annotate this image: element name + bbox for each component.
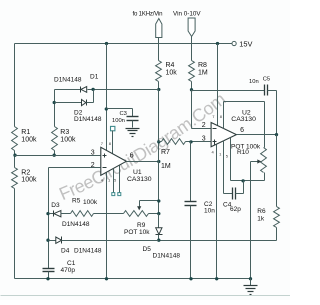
wire central node vertical (158, 90, 160, 214)
wire left edge upper (14, 44, 16, 127)
svg-text:6: 6 (130, 153, 134, 160)
node D2 riser joins D1 row (91, 88, 94, 91)
resistor R3 (52, 127, 58, 151)
wire R9 right (149, 213, 159, 215)
svg-text:10k: 10k (166, 69, 178, 76)
watermark (decorative) (63, 96, 235, 201)
svg-text:R1: R1 (21, 129, 30, 136)
connector fo 1KHz/Vin (156, 19, 162, 38)
node ground rail end (249, 277, 252, 280)
svg-text:D4: D4 (61, 247, 70, 254)
wire R3 bottom (54, 151, 56, 156)
diode D1 (81, 87, 87, 93)
wire R10 bottom (264, 173, 266, 181)
node C4 joins pot bottom (241, 179, 244, 182)
node U2 output junction (275, 133, 278, 136)
wire R6 bottom (276, 228, 278, 241)
svg-text:C1: C1 (67, 260, 76, 267)
wire C5 run (192, 90, 265, 92)
svg-text:D5: D5 (143, 246, 152, 253)
wire wiper to ground (250, 162, 252, 279)
wire U2 pin7 supply (217, 44, 219, 126)
wire D4 left (49, 240, 56, 242)
svg-text:3: 3 (202, 136, 206, 143)
node R3 joins pin3 row (53, 154, 56, 157)
wire U2 out to R6 (276, 135, 278, 207)
wire C1 bottom (48, 272, 50, 279)
resistor R5 (71, 211, 94, 217)
wire R9 wiper row (140, 200, 159, 202)
node C1 ground rail (46, 277, 49, 280)
wire pin3 row R1 R3 to U1 (15, 155, 101, 157)
diode D5 (156, 228, 162, 235)
svg-text:fo 1KHz/Vin: fo 1KHz/Vin (133, 11, 163, 18)
terminal U1 pin8 square (111, 126, 115, 130)
svg-text:CA3130: CA3130 (231, 116, 256, 123)
svg-text:D1N4148: D1N4148 (74, 116, 102, 123)
resistor R4 (156, 61, 162, 82)
svg-text:2: 2 (202, 122, 206, 129)
wire U1 offset pin a (113, 169, 115, 193)
capacitor C3 (127, 116, 139, 118)
wire U1 pin8 (112, 131, 114, 155)
diode D4 (56, 237, 62, 243)
node R8 bottom junction (190, 88, 193, 91)
svg-text:100k: 100k (83, 199, 98, 206)
svg-text:10n: 10n (204, 208, 215, 215)
svg-text:C5: C5 (263, 76, 270, 82)
wire D2 riser (93, 90, 95, 103)
resistor R8 (189, 61, 195, 82)
wire C2 top (190, 142, 192, 202)
node wiper joins central (157, 199, 160, 202)
node R9 D5 junction (157, 212, 160, 215)
svg-text:D1: D1 (90, 73, 99, 80)
wire U2 pin4 down (216, 145, 218, 279)
wire U1 offset pin b (119, 166, 121, 193)
node D2 row junction (53, 101, 56, 104)
svg-text:R4: R4 (166, 62, 175, 69)
wiper R9 (139, 201, 141, 207)
wire R8 bottom (191, 82, 193, 90)
wire U2 pin8 box (223, 102, 225, 129)
node U1 pin4 ground rail (105, 277, 108, 280)
wire C3 branch (107, 108, 133, 110)
wire D3 to R5 (61, 213, 71, 215)
svg-text:D3: D3 (51, 202, 60, 209)
wire U2 pin5 down (230, 138, 232, 181)
wire D4 row right (62, 240, 159, 242)
svg-text:POT 10k: POT 10k (124, 229, 150, 236)
svg-text:3: 3 (91, 150, 95, 157)
wire Vin connector to R8 (191, 37, 193, 61)
svg-text:15V: 15V (239, 39, 252, 48)
wire U1 pin2 vertical (48, 168, 50, 269)
svg-text:1M: 1M (198, 69, 208, 76)
wire top 15V rail (15, 43, 233, 45)
node D5 joins D4 row (157, 239, 160, 242)
op-amp U1 (101, 147, 127, 175)
wire pot bottom row (231, 180, 265, 182)
node D4 row junction (46, 239, 49, 242)
node C3 branch (105, 107, 108, 110)
connector Vin 0-10V (188, 18, 195, 37)
terminal 15V (232, 41, 236, 45)
wire C4 right (236, 193, 244, 195)
node U1 output junction (157, 160, 160, 163)
svg-text:R6: R6 (257, 208, 266, 215)
terminal square U1 offset a (112, 193, 115, 196)
wire C2 bottom (190, 206, 192, 279)
wire D1 row left (55, 89, 81, 91)
svg-text:R7: R7 (161, 149, 170, 156)
resistor R7 (162, 139, 186, 145)
resistor R6 (274, 207, 280, 228)
svg-text:D1N4148: D1N4148 (74, 247, 102, 254)
capacitor C4 (232, 188, 234, 200)
node R4 bottom junction (157, 88, 160, 91)
svg-text:D1N4148: D1N4148 (54, 77, 82, 84)
wire C3 to ground (132, 121, 134, 128)
svg-text:R3: R3 (60, 129, 69, 136)
potentiometer R9 (124, 211, 149, 217)
node R7 right C2 branch (189, 140, 192, 143)
wire left edge mid (14, 151, 16, 168)
capacitor C5 (264, 85, 266, 96)
svg-text:U1: U1 (133, 169, 142, 176)
wire C5 right (268, 90, 277, 92)
wire fo connector to R4 (158, 38, 160, 61)
ground main (244, 285, 258, 287)
svg-text:R10: R10 (237, 149, 249, 156)
svg-text:D1N4148: D1N4148 (62, 221, 90, 228)
svg-text:6: 6 (240, 127, 244, 134)
wire U1 output (127, 161, 159, 163)
node D3 row junction (46, 212, 49, 215)
terminal square U1 offset b (118, 193, 121, 196)
node 15V rail junction to U2 pin7 (216, 42, 219, 45)
svg-text:100k: 100k (21, 136, 37, 143)
svg-text:CA3130: CA3130 (127, 176, 152, 183)
wire D2 to riser (87, 102, 94, 104)
wiper R10 (251, 161, 258, 163)
wire left edge lower (14, 189, 16, 279)
svg-text:1k: 1k (257, 215, 265, 222)
diode D3 (53, 211, 55, 217)
svg-text:2: 2 (91, 162, 95, 169)
wire R5 to R9 (94, 213, 124, 215)
wire U2 output (237, 134, 277, 136)
svg-text:R5: R5 (72, 198, 81, 205)
node 15V rail junction to U1 pin7 (105, 42, 108, 45)
node R1-R2 junction (13, 154, 16, 157)
wire R8 node down (191, 90, 193, 129)
wire pin2 row to U1 (49, 167, 101, 169)
svg-text:R2: R2 (21, 169, 30, 176)
wire U1 pin7 supply (106, 44, 108, 151)
resistor R1 (12, 127, 18, 151)
svg-text:470p: 470p (61, 267, 76, 274)
wire D3 row left (49, 213, 54, 215)
capacitor C2 (185, 201, 197, 203)
svg-text:10n: 10n (249, 79, 259, 85)
resistor R2 (12, 168, 18, 189)
svg-text:R9: R9 (137, 222, 146, 229)
svg-text:62p: 62p (230, 206, 241, 213)
ground under C3 (126, 128, 140, 130)
wire U1 pin4 down (106, 173, 108, 279)
wire D1D2 left vertical (54, 90, 56, 127)
node R7 left (157, 140, 160, 143)
svg-text:100k: 100k (21, 177, 37, 184)
wire ground stub (250, 279, 252, 286)
wire D1 row right (88, 89, 159, 91)
svg-text:D1N4148: D1N4148 (153, 253, 181, 260)
svg-text:Vin 0-10V: Vin 0-10V (173, 11, 201, 18)
wire R7 to U2 pin3 (186, 141, 212, 143)
wire R4 bottom (158, 82, 160, 90)
node U2 pin4 ground rail (215, 277, 218, 280)
svg-text:100n: 100n (112, 118, 125, 124)
diode D2 (82, 100, 86, 106)
wire D2 row (55, 102, 82, 104)
wire D5 bottom (158, 235, 160, 241)
potentiometer R10 (261, 148, 267, 173)
svg-text:C3: C3 (120, 111, 127, 117)
wire to U2 pin2 (192, 128, 212, 130)
wire bottom ground rail (15, 278, 251, 280)
svg-text:1M: 1M (161, 163, 171, 170)
wire R7 left stub (159, 141, 162, 143)
capacitor C1 (43, 268, 55, 270)
wire U2 pin1 down (223, 141, 225, 194)
op-amp U2 (211, 123, 236, 147)
wire D5 top (158, 214, 160, 228)
footer line (decorative) (1, 295, 291, 297)
svg-text:100k: 100k (60, 136, 76, 143)
node C2 ground rail (189, 277, 192, 280)
svg-text:R8: R8 (198, 62, 207, 69)
